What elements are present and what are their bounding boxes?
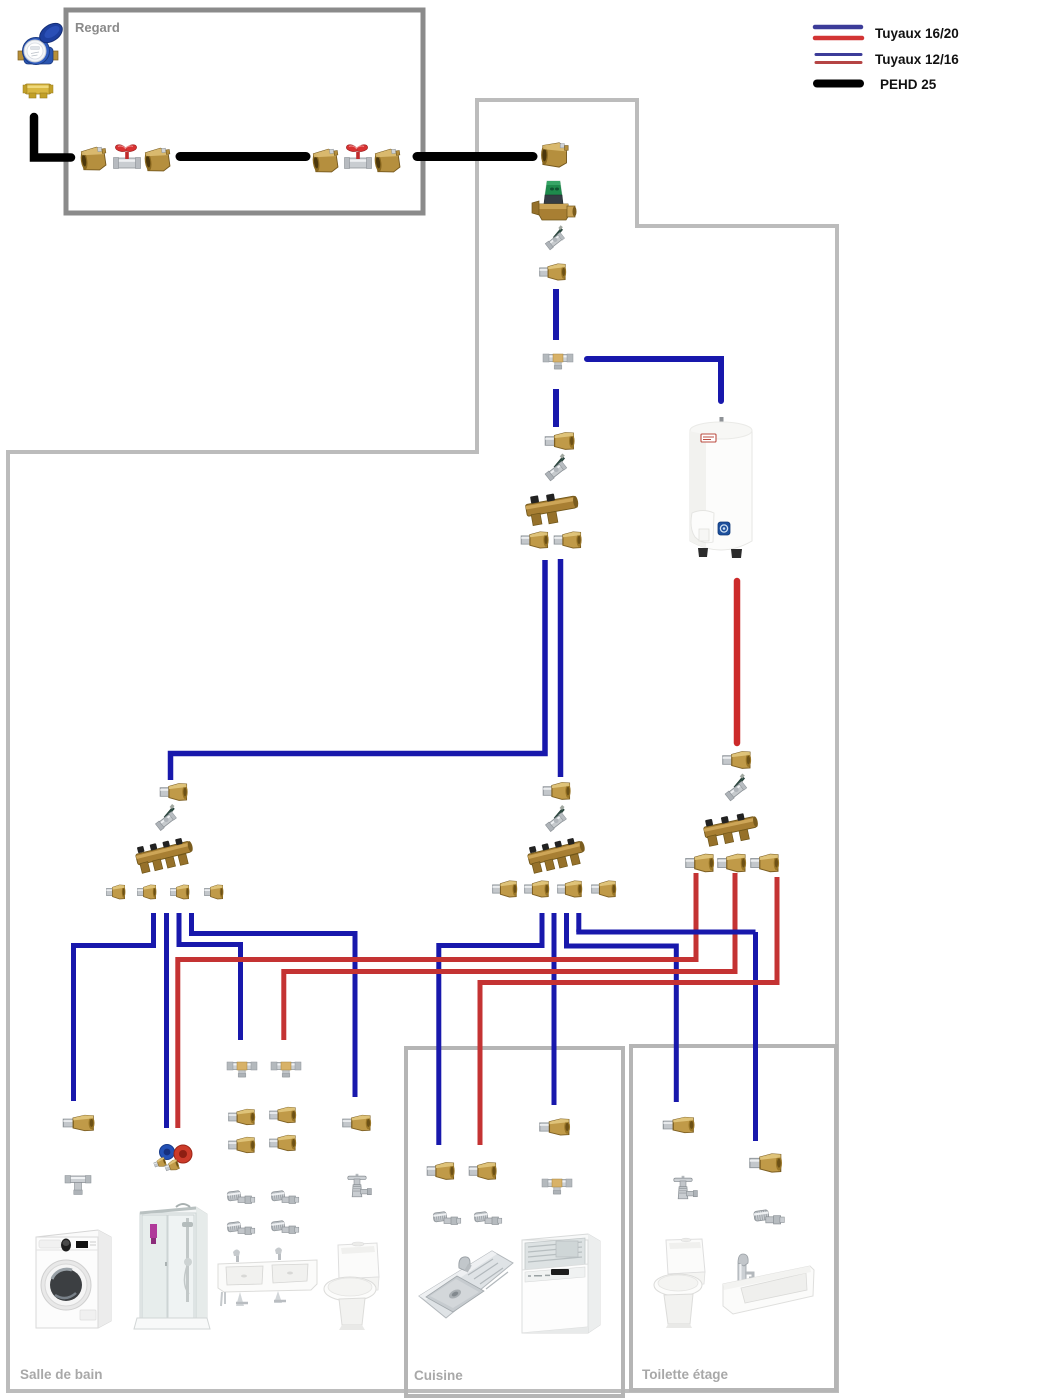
cold pipe to upstairs basin (vertical stub)	[576, 913, 581, 932]
kitchen sink	[419, 1251, 513, 1318]
bathroom manifold 4 outlets	[134, 834, 196, 875]
cold pipe to upstairs toilet	[567, 913, 677, 1102]
legend label Tuyaux 16/20	[875, 26, 959, 41]
cold water pipe below main fitting	[553, 289, 559, 340]
Regard label	[75, 20, 120, 35]
PEHD pipe segment to main valve chain	[417, 152, 533, 161]
svg-text:Tuyaux 16/20: Tuyaux 16/20	[875, 26, 959, 41]
tap bathroom toilet	[348, 1174, 372, 1197]
ball valve heater	[722, 773, 752, 801]
cold water pipe below tee	[553, 389, 559, 427]
hot manifold 3 outlets	[702, 810, 761, 848]
bathroom outlet fitting 1	[107, 885, 126, 899]
fitting bathroom toilet	[343, 1115, 371, 1130]
hot water pipe from heater	[734, 581, 741, 743]
shower mixer hot cold caps	[153, 1145, 192, 1174]
legend label Tuyaux 12/16	[875, 52, 959, 67]
fitting kitchen hot	[469, 1163, 496, 1180]
hot outlet fitting 2	[718, 854, 746, 872]
sink fitting cold 1	[229, 1109, 255, 1124]
kitchen outlet fitting 2	[525, 881, 550, 897]
distribution manifold main	[524, 489, 581, 528]
PEHD pipe elbow from water meter	[34, 117, 71, 158]
shower cabin	[134, 1204, 210, 1329]
dishwasher tee	[542, 1179, 572, 1194]
cold water pipe tee to water heater	[587, 359, 721, 401]
sink fitting cold 2	[229, 1137, 255, 1152]
sink fitting hot 2	[270, 1135, 296, 1150]
sink angle valve cold 2	[227, 1221, 255, 1234]
sink fitting hot 1	[270, 1107, 296, 1122]
legend black PEHD line	[817, 80, 860, 88]
legend red 12/16 line	[816, 61, 861, 64]
fitting bathroom feed	[160, 784, 187, 801]
fitting washing machine	[63, 1115, 94, 1130]
angle valve upstairs basin	[754, 1210, 785, 1224]
cold pipe to kitchen sink	[439, 913, 542, 1145]
ball valve main 1	[542, 225, 569, 250]
kitchen outlet fitting 3	[558, 881, 583, 897]
cold pipe to bathroom sink	[179, 913, 241, 1040]
Toilette etage label	[642, 1367, 729, 1382]
tap upstairs toilet	[674, 1176, 698, 1199]
PEHD coupling 3	[311, 148, 340, 174]
cold water pipe to bathroom manifold	[171, 560, 546, 780]
Cuisine label	[414, 1368, 463, 1383]
Cuisine box	[406, 1048, 623, 1396]
cold pipe to dishwasher	[552, 913, 557, 1105]
sink tee cold	[227, 1062, 257, 1077]
fitting kitchen cold	[427, 1163, 454, 1180]
washing machine tap	[65, 1176, 91, 1195]
purge valve fitting	[23, 84, 53, 98]
hot outlet fitting 3	[751, 854, 779, 872]
PEHD coupling 2	[143, 147, 172, 173]
svg-text:Regard: Regard	[75, 20, 120, 35]
Salle de bain label	[20, 1367, 103, 1382]
ball valve red 2	[345, 145, 372, 169]
hot pipe to kitchen sink	[480, 877, 777, 1145]
kitchen angle valve cold	[433, 1211, 461, 1224]
fitting upstairs basin	[750, 1154, 782, 1172]
svg-text:PEHD 25: PEHD 25	[880, 77, 937, 92]
tee fitting to heater	[543, 354, 573, 369]
Toilette etage box	[631, 1046, 836, 1390]
fitting dishwasher	[540, 1119, 570, 1135]
fitting heater hot	[723, 752, 751, 769]
fitting outlet left	[521, 532, 548, 548]
hot pipe to shower	[178, 873, 696, 1128]
Regard box	[66, 10, 423, 213]
cold pipe to upstairs basin (descent)	[753, 932, 758, 1141]
sink angle valve hot 1	[271, 1190, 299, 1203]
svg-text:Tuyaux 12/16: Tuyaux 12/16	[875, 52, 959, 67]
bathroom outlet fitting 4	[205, 885, 224, 899]
fitting kitchen feed	[543, 783, 570, 800]
cold pipe to washing machine	[74, 913, 154, 1101]
pressure reducer	[532, 181, 577, 220]
PEHD coupling 1	[79, 146, 108, 172]
upstairs wash basin	[723, 1254, 814, 1314]
kitchen angle valve hot	[474, 1211, 502, 1224]
outer wall outline of house	[8, 100, 837, 1391]
cold pipe to bathroom toilet	[192, 913, 356, 1097]
PEHD coupling 4	[373, 148, 402, 174]
hot outlet fitting 1	[686, 854, 714, 872]
bathroom outlet fitting 2	[138, 885, 157, 899]
legend label PEHD 25	[880, 77, 937, 92]
washing machine	[36, 1230, 111, 1328]
fitting outlet right	[554, 532, 581, 548]
fitting main 1	[540, 264, 566, 280]
PEHD pipe segment inside Regard	[180, 152, 306, 161]
legend blue 12/16 line	[816, 53, 861, 56]
water heater	[690, 417, 752, 558]
double sink	[218, 1248, 317, 1307]
cold pipe to shower	[164, 913, 169, 1128]
fitting upstairs toilet	[663, 1117, 694, 1132]
cold pipe to upstairs basin (horizontal over hot pipes)	[576, 930, 755, 935]
ball valve kitchen	[542, 805, 571, 832]
kitchen outlet fitting 4	[592, 881, 617, 897]
bathroom outlet fitting 3	[171, 885, 190, 899]
ball valve bathroom	[152, 804, 181, 831]
fitting main 2	[545, 433, 574, 450]
svg-text:Toilette étage: Toilette étage	[642, 1367, 729, 1382]
legend blue 16/20 line	[815, 25, 861, 30]
kitchen outlet fitting 1	[493, 881, 518, 897]
upstairs toilet	[654, 1238, 705, 1328]
PEHD coupling main	[541, 143, 568, 167]
hot pipe to bathroom sink	[284, 873, 735, 1040]
bathroom toilet	[324, 1242, 379, 1330]
dishwasher	[522, 1234, 600, 1333]
water meter	[18, 19, 66, 64]
cold water pipe to kitchen manifold	[558, 559, 564, 777]
ball valve main 2	[542, 453, 572, 481]
ball valve red 1	[114, 145, 141, 169]
svg-text:Cuisine: Cuisine	[414, 1368, 463, 1383]
sink angle valve hot 2	[271, 1220, 299, 1233]
svg-text:Salle de bain: Salle de bain	[20, 1367, 103, 1382]
legend red 16/20 line	[815, 36, 862, 41]
sink angle valve cold 1	[227, 1190, 255, 1203]
sink tee hot	[271, 1062, 301, 1077]
kitchen manifold 4 outlets	[526, 834, 588, 875]
